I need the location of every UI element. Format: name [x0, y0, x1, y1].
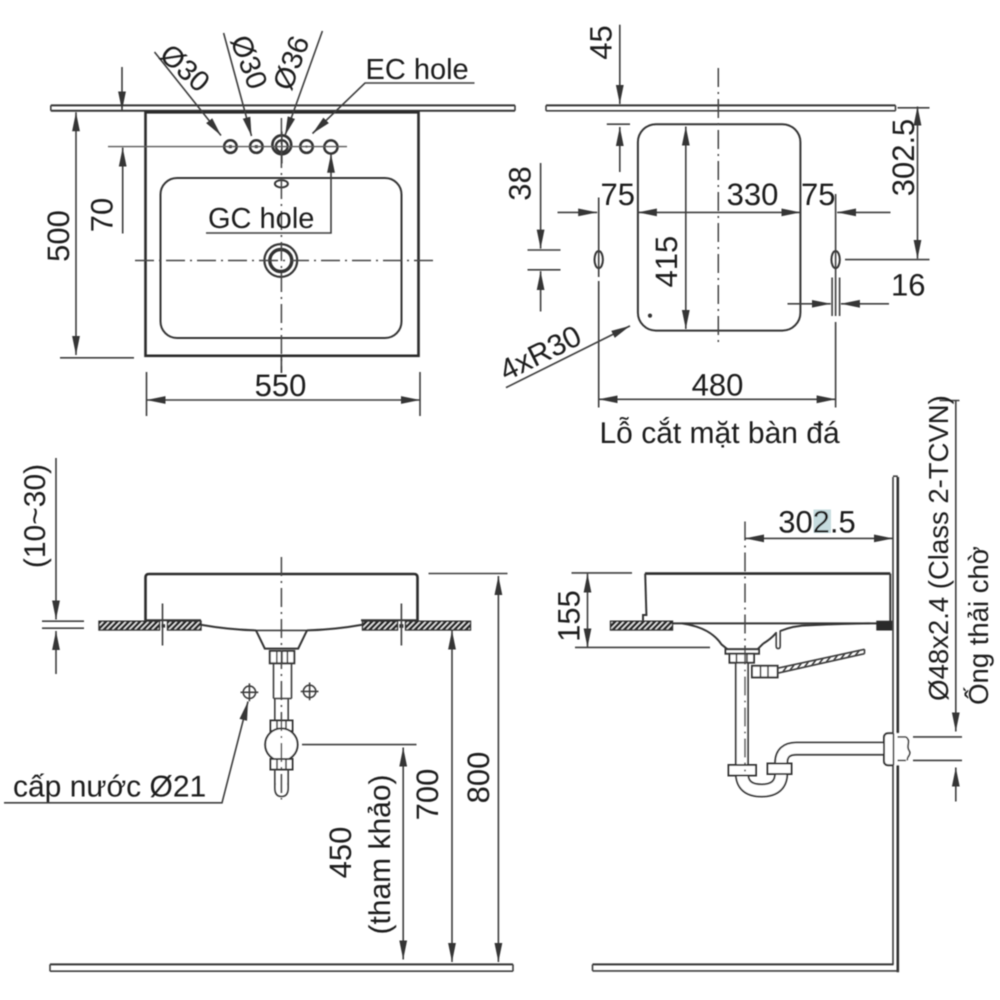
dimension 700 — [451, 631, 453, 963]
leader Ø30 hole1 — [155, 52, 222, 136]
bowl section right — [763, 633, 776, 644]
sink side view — [645, 572, 890, 575]
bowl sump — [256, 630, 307, 648]
svg-text:Ø36: Ø36 — [268, 32, 317, 94]
dimension 75 right — [837, 211, 890, 213]
pipe break squiggle — [906, 737, 910, 761]
svg-text:450: 450 — [323, 827, 358, 879]
highlight on digit 2 — [814, 510, 832, 534]
dimension 45 — [619, 25, 621, 104]
VIEW-B — [4, 458, 513, 971]
centreline horizontal — [135, 260, 433, 262]
trap nut left — [729, 765, 757, 776]
faucet hole 4 (EC) — [300, 140, 313, 153]
sink outline top view — [146, 112, 419, 355]
svg-text:cấp nước Ø21: cấp nước Ø21 — [13, 771, 206, 804]
overflow channel notch — [776, 631, 780, 649]
dimension 70 — [121, 67, 123, 111]
leader cấp nước — [4, 702, 248, 803]
stray dot — [648, 314, 652, 318]
dimension (10~30) — [55, 458, 57, 620]
drain flange — [726, 649, 760, 653]
hole centre extension line — [108, 146, 347, 148]
leader EC hole — [313, 83, 475, 134]
bowl sump — [728, 644, 764, 650]
counter section left (hatched) — [99, 621, 160, 630]
dimension 155 — [572, 572, 633, 574]
svg-text:38: 38 — [503, 166, 538, 200]
svg-text:75: 75 — [801, 177, 835, 212]
bottle trap cup — [265, 728, 297, 760]
svg-text:500: 500 — [41, 210, 76, 262]
svg-text:Ø48x2.4 (Class 2-TCVN): Ø48x2.4 (Class 2-TCVN) — [923, 395, 954, 701]
dimension 800 — [429, 573, 508, 575]
dimension 38 — [540, 163, 542, 249]
svg-text:330: 330 — [727, 177, 779, 212]
drain hole — [264, 244, 297, 277]
centreline vertical — [717, 68, 719, 342]
svg-text:EC hole: EC hole — [366, 54, 469, 86]
leader GC hole — [206, 154, 331, 233]
dimension Ø48 leader — [955, 401, 957, 732]
drain locknut — [730, 654, 755, 663]
dimension 302.5 — [745, 537, 893, 539]
overflow slot — [275, 180, 288, 187]
waste pipe extension lines — [913, 737, 962, 761]
VIEW-A — [494, 25, 929, 450]
pop-up rod — [778, 649, 865, 673]
wall line — [892, 477, 894, 964]
wall sleeve mask — [884, 733, 909, 765]
outlet pipe rounded end — [275, 783, 288, 797]
pop-up rod fitting — [752, 666, 778, 678]
dimension 16 — [831, 278, 833, 317]
dimension 500 — [75, 112, 77, 355]
svg-text:155: 155 — [552, 590, 587, 642]
coupling nut 2 — [271, 721, 293, 732]
centreline vertical — [280, 118, 282, 373]
floor line right — [593, 963, 894, 965]
coupling nut 1 — [270, 651, 295, 663]
countertop edge (plan) — [51, 104, 515, 106]
svg-text:700: 700 — [410, 769, 445, 821]
wall flange — [884, 733, 894, 765]
svg-text:16: 16 — [891, 268, 925, 303]
svg-text:70: 70 — [85, 198, 120, 232]
svg-text:480: 480 — [692, 368, 744, 403]
svg-text:(10~30): (10~30) — [19, 464, 52, 568]
svg-text:GC hole: GC hole — [208, 203, 314, 235]
coupling nut 3 — [271, 759, 293, 770]
mounting slot right — [831, 251, 839, 268]
faucet hole 1 — [224, 140, 237, 153]
leader Ø30 hole2 — [224, 33, 252, 136]
svg-text:550: 550 — [255, 368, 307, 403]
counter section right (hatched) — [363, 621, 398, 630]
svg-text:800: 800 — [461, 752, 496, 804]
counter section right — [877, 621, 892, 630]
tailpipe lower — [275, 699, 288, 721]
bowl underside pan — [200, 625, 363, 631]
basin inner rim — [161, 178, 402, 338]
centreline vertical — [280, 557, 282, 800]
wall fixing hole left — [243, 686, 255, 698]
svg-text:(tham khảo): (tham khảo) — [364, 774, 397, 934]
VIEW-C — [552, 395, 995, 971]
dimension 480 — [598, 281, 600, 408]
tailpipe upper — [274, 663, 292, 698]
svg-text:75: 75 — [600, 177, 634, 212]
svg-text:4xR30: 4xR30 — [494, 320, 586, 388]
faucet hole 5 (GC) — [324, 140, 337, 153]
svg-text:Lỗ cắt mặt bàn đá: Lỗ cắt mặt bàn đá — [600, 416, 840, 450]
svg-text:Ø30: Ø30 — [153, 38, 215, 98]
radius label 4xR30 — [506, 326, 630, 388]
trap pipe run — [742, 661, 893, 791]
dimension 330 — [638, 211, 801, 213]
mounting slot left — [595, 251, 603, 268]
dimension 302.5 — [917, 107, 919, 259]
dimension 75 left — [558, 211, 598, 213]
svg-text:45: 45 — [584, 25, 619, 59]
faucet hole 3 (Ø36) — [272, 135, 291, 154]
floor line — [50, 963, 513, 965]
outlet pipe — [275, 770, 288, 786]
dimension 415 — [685, 127, 687, 330]
trap nut right — [768, 764, 792, 775]
svg-text:302.5: 302.5 — [886, 119, 921, 197]
svg-text:Ống thải chờ: Ống thải chờ — [963, 546, 994, 705]
waste stub through wall — [898, 737, 907, 761]
fixing bolt right — [400, 604, 402, 646]
dimension 550 — [146, 372, 148, 416]
countertop edge (cut template) — [546, 104, 896, 106]
wall fixing hole right — [303, 685, 315, 697]
fixing bolt left — [162, 604, 164, 646]
drain centreline — [744, 522, 746, 772]
svg-text:415: 415 — [649, 236, 684, 288]
counter section left (hatched) — [611, 621, 673, 630]
leader Ø36 hole3 — [285, 31, 322, 136]
sink body front view — [146, 574, 418, 621]
counter cut-out opening — [638, 124, 801, 330]
bowl section left — [682, 623, 728, 649]
dimension 450 — [302, 744, 417, 746]
faucet hole 2 — [250, 140, 263, 153]
svg-text:302.5: 302.5 — [778, 505, 856, 540]
